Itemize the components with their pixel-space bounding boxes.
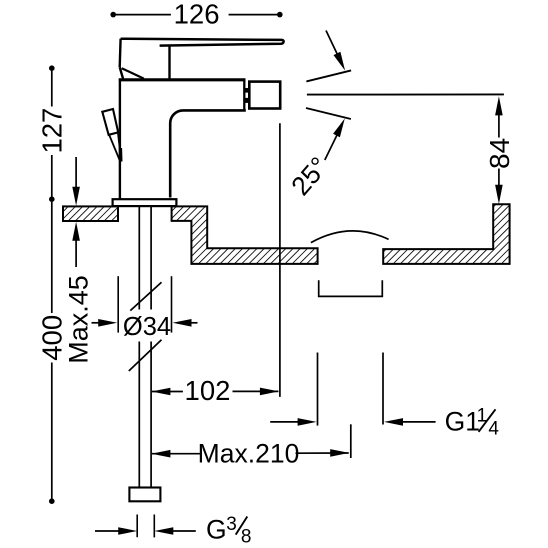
supply pipe left line (138, 207, 140, 488)
body left edge (119, 79, 121, 200)
drain centre extension line (350, 424, 352, 458)
angle leader upper (326, 31, 345, 71)
svg-text:8: 8 (241, 526, 252, 547)
dimension Max.210 (151, 438, 349, 468)
pipe end nut (129, 488, 160, 502)
dimension G1 1/4 (270, 406, 499, 440)
spout axis extension line (279, 123, 281, 397)
dimension 126 (110, 0, 282, 30)
svg-text:G1: G1 (445, 406, 480, 436)
pipe break mark upper (130, 282, 161, 310)
svg-text:127: 127 (37, 108, 68, 154)
drain recess (319, 280, 383, 296)
lever chamfer (122, 68, 144, 78)
spout aerator square (249, 82, 280, 109)
dimension 102 (151, 375, 279, 406)
svg-text:102: 102 (185, 375, 231, 406)
spout reference axis (307, 93, 504, 95)
dimension Max.45 (64, 157, 94, 364)
svg-text:126: 126 (174, 0, 220, 30)
drain edge extension lines (318, 353, 384, 426)
dimension G 3/8 (95, 514, 251, 547)
body top edge (119, 78, 246, 81)
svg-text:4: 4 (488, 419, 499, 440)
knob stem root (119, 148, 123, 162)
svg-text:G: G (206, 515, 227, 545)
svg-text:Ø34: Ø34 (123, 313, 171, 341)
dimension 84 (484, 96, 515, 204)
supply pipe right line (150, 207, 152, 488)
deck right section (383, 204, 509, 264)
dimension diameter 34 (92, 276, 198, 341)
deck middle step (172, 206, 318, 264)
svg-text:Max.45: Max.45 (64, 275, 94, 364)
angle wing lower (306, 108, 351, 119)
angle wing upper (306, 70, 351, 81)
dimension 127 (37, 65, 68, 202)
spout underside and column right edge (170, 110, 246, 197)
lever blade (121, 39, 284, 46)
lever lower left edge (120, 67, 124, 79)
svg-text:84: 84 (484, 138, 515, 169)
dimension 400 (37, 202, 68, 504)
body right edge (243, 80, 245, 110)
knob stem (109, 133, 121, 161)
base plate (113, 199, 177, 206)
svg-text:3: 3 (226, 514, 237, 535)
side knob (102, 109, 118, 135)
angle leader lower (325, 118, 345, 160)
svg-text:Max.210: Max.210 (198, 438, 300, 468)
pipe break mark lower (129, 340, 162, 371)
aerator coupling bars (245, 88, 249, 103)
deck left slab (63, 206, 118, 221)
lever neck (168, 46, 170, 79)
lever left edge (118, 39, 121, 67)
bowl arc (311, 231, 389, 243)
angle text 25 deg (285, 151, 334, 201)
